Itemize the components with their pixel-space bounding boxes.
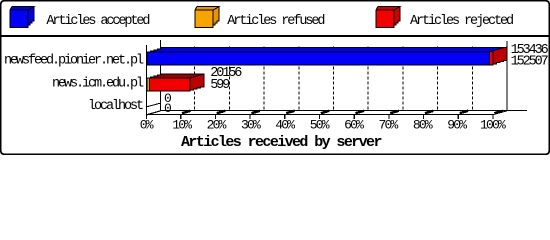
svg-text:Articles refused: Articles refused bbox=[227, 14, 324, 29]
axis ticks bbox=[181, 111, 503, 119]
svg-text:0: 0 bbox=[164, 101, 171, 116]
svg-text:70%: 70% bbox=[379, 118, 399, 133]
svg-text:40%: 40% bbox=[275, 118, 295, 133]
svg-text:news.icm.edu.pl: news.icm.edu.pl bbox=[52, 77, 144, 92]
svg-text:0%: 0% bbox=[140, 118, 154, 133]
legend cube orange bbox=[195, 7, 219, 28]
front y-axis bbox=[146, 45, 148, 119]
floor right edge slant bbox=[494, 111, 508, 115]
right wall edge bbox=[506, 41, 508, 111]
svg-text:localhost: localhost bbox=[88, 99, 143, 114]
bar row2 refused (orange sliver, front) bbox=[147, 78, 150, 91]
legend cube blue bbox=[10, 7, 34, 28]
dashed gridlines bbox=[195, 47, 473, 111]
svg-text:152507: 152507 bbox=[511, 55, 549, 70]
outer border bbox=[1, 1, 549, 154]
x axis percent labels bbox=[140, 118, 506, 133]
row3 zero marker line bbox=[146, 103, 161, 107]
svg-text:80%: 80% bbox=[413, 118, 433, 133]
legend divider bbox=[1, 35, 549, 37]
bar row2 rejected (red) bbox=[147, 74, 204, 91]
back floor line bbox=[160, 110, 527, 112]
svg-text:10%: 10% bbox=[172, 118, 192, 133]
front floor line bbox=[146, 114, 494, 116]
svg-text:30%: 30% bbox=[241, 118, 261, 133]
legend cube red bbox=[376, 7, 400, 28]
svg-text:20%: 20% bbox=[207, 118, 227, 133]
bar row1 accepted (blue, front) bbox=[147, 47, 504, 65]
svg-text:90%: 90% bbox=[447, 118, 467, 133]
svg-text:Articles received by server: Articles received by server bbox=[181, 134, 381, 151]
svg-text:60%: 60% bbox=[344, 118, 364, 133]
svg-text:Articles rejected: Articles rejected bbox=[410, 14, 513, 29]
back y-axis bbox=[160, 40, 162, 111]
svg-text:50%: 50% bbox=[310, 118, 330, 133]
svg-text:newsfeed.pionier.net.pl: newsfeed.pionier.net.pl bbox=[4, 54, 144, 69]
svg-text:599: 599 bbox=[210, 78, 230, 93]
bar row1 rejected (red, behind) bbox=[455, 47, 507, 65]
svg-text:Articles accepted: Articles accepted bbox=[46, 14, 149, 29]
svg-text:100%: 100% bbox=[480, 118, 506, 133]
floor left edge slant bbox=[146, 111, 161, 115]
